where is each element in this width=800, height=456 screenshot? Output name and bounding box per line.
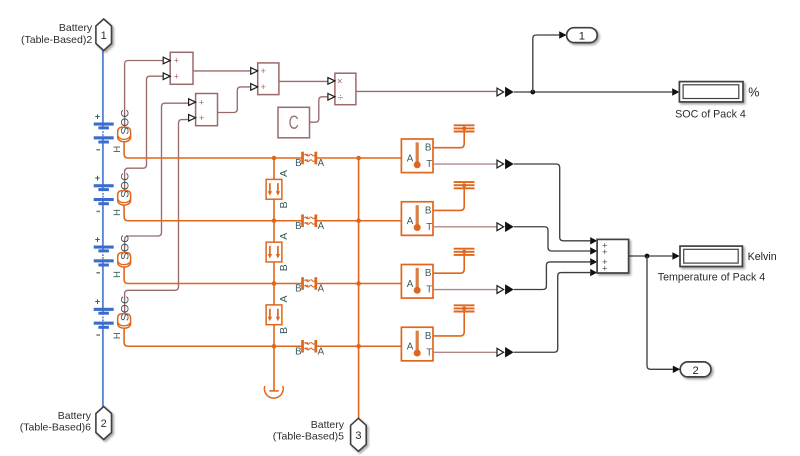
svg-text:Temperature of Pack 4: Temperature of Pack 4 — [658, 272, 766, 284]
svg-text:+: + — [174, 71, 179, 81]
svg-text:Battery: Battery — [311, 419, 345, 431]
svg-text:H: H — [112, 332, 122, 339]
svg-text:Kelvin: Kelvin — [748, 251, 777, 263]
svg-text:SOC of Pack 4: SOC of Pack 4 — [675, 109, 746, 121]
svg-text:+: + — [95, 234, 100, 244]
svg-text:T: T — [426, 285, 432, 296]
svg-text:T: T — [426, 222, 432, 233]
svg-text:SOC: SOC — [119, 234, 131, 260]
svg-text:A: A — [407, 216, 414, 227]
svg-text:Battery: Battery — [58, 410, 92, 422]
svg-text:A: A — [407, 342, 414, 353]
svg-text:B: B — [295, 221, 301, 232]
svg-text:B: B — [278, 327, 290, 334]
svg-text:B: B — [425, 143, 432, 154]
svg-text:A: A — [318, 346, 325, 357]
svg-text:+: + — [174, 56, 179, 66]
svg-text:1: 1 — [579, 31, 585, 43]
svg-text:A: A — [318, 284, 325, 295]
svg-text:(Table-Based)5: (Table-Based)5 — [273, 430, 344, 442]
svg-text:+: + — [95, 173, 100, 183]
svg-text:×: × — [337, 76, 343, 87]
svg-text:SOC: SOC — [119, 172, 131, 198]
svg-text:+: + — [260, 66, 265, 76]
svg-text:3: 3 — [355, 430, 361, 442]
svg-text:2: 2 — [692, 365, 698, 377]
svg-text:H: H — [112, 146, 122, 153]
svg-text:B: B — [295, 158, 301, 169]
svg-text:2: 2 — [101, 418, 107, 430]
svg-text:+: + — [95, 297, 100, 307]
svg-text:A: A — [278, 233, 290, 240]
svg-text:B: B — [295, 284, 301, 295]
svg-text:B: B — [425, 268, 432, 279]
svg-text:%: % — [748, 85, 759, 99]
svg-text:A: A — [278, 170, 290, 177]
svg-text:B: B — [425, 205, 432, 216]
svg-text:(Table-Based)2: (Table-Based)2 — [21, 34, 92, 46]
svg-text:÷: ÷ — [338, 91, 344, 103]
svg-text:A: A — [407, 279, 414, 290]
svg-text:+: + — [199, 113, 204, 123]
svg-text:B: B — [295, 346, 301, 357]
svg-text:B: B — [278, 264, 290, 271]
svg-text:B: B — [278, 201, 290, 208]
svg-text:T: T — [426, 347, 432, 358]
svg-text:C: C — [289, 112, 299, 134]
svg-text:SOC: SOC — [119, 109, 131, 135]
svg-text:A: A — [318, 221, 325, 232]
svg-text:A: A — [318, 158, 325, 169]
svg-text:+: + — [602, 264, 608, 275]
svg-text:T: T — [426, 159, 432, 170]
svg-text:B: B — [425, 331, 432, 342]
svg-text:+: + — [260, 82, 265, 92]
svg-text:+: + — [95, 111, 100, 121]
svg-text:Battery: Battery — [59, 22, 93, 34]
svg-text:A: A — [278, 295, 290, 302]
svg-text:(Table-Based)6: (Table-Based)6 — [20, 422, 91, 434]
svg-text:H: H — [112, 209, 122, 216]
svg-text:H: H — [112, 271, 122, 278]
svg-text:A: A — [407, 153, 414, 164]
svg-text:1: 1 — [101, 30, 107, 42]
svg-text:SOC: SOC — [119, 295, 131, 321]
svg-text:+: + — [199, 97, 204, 107]
